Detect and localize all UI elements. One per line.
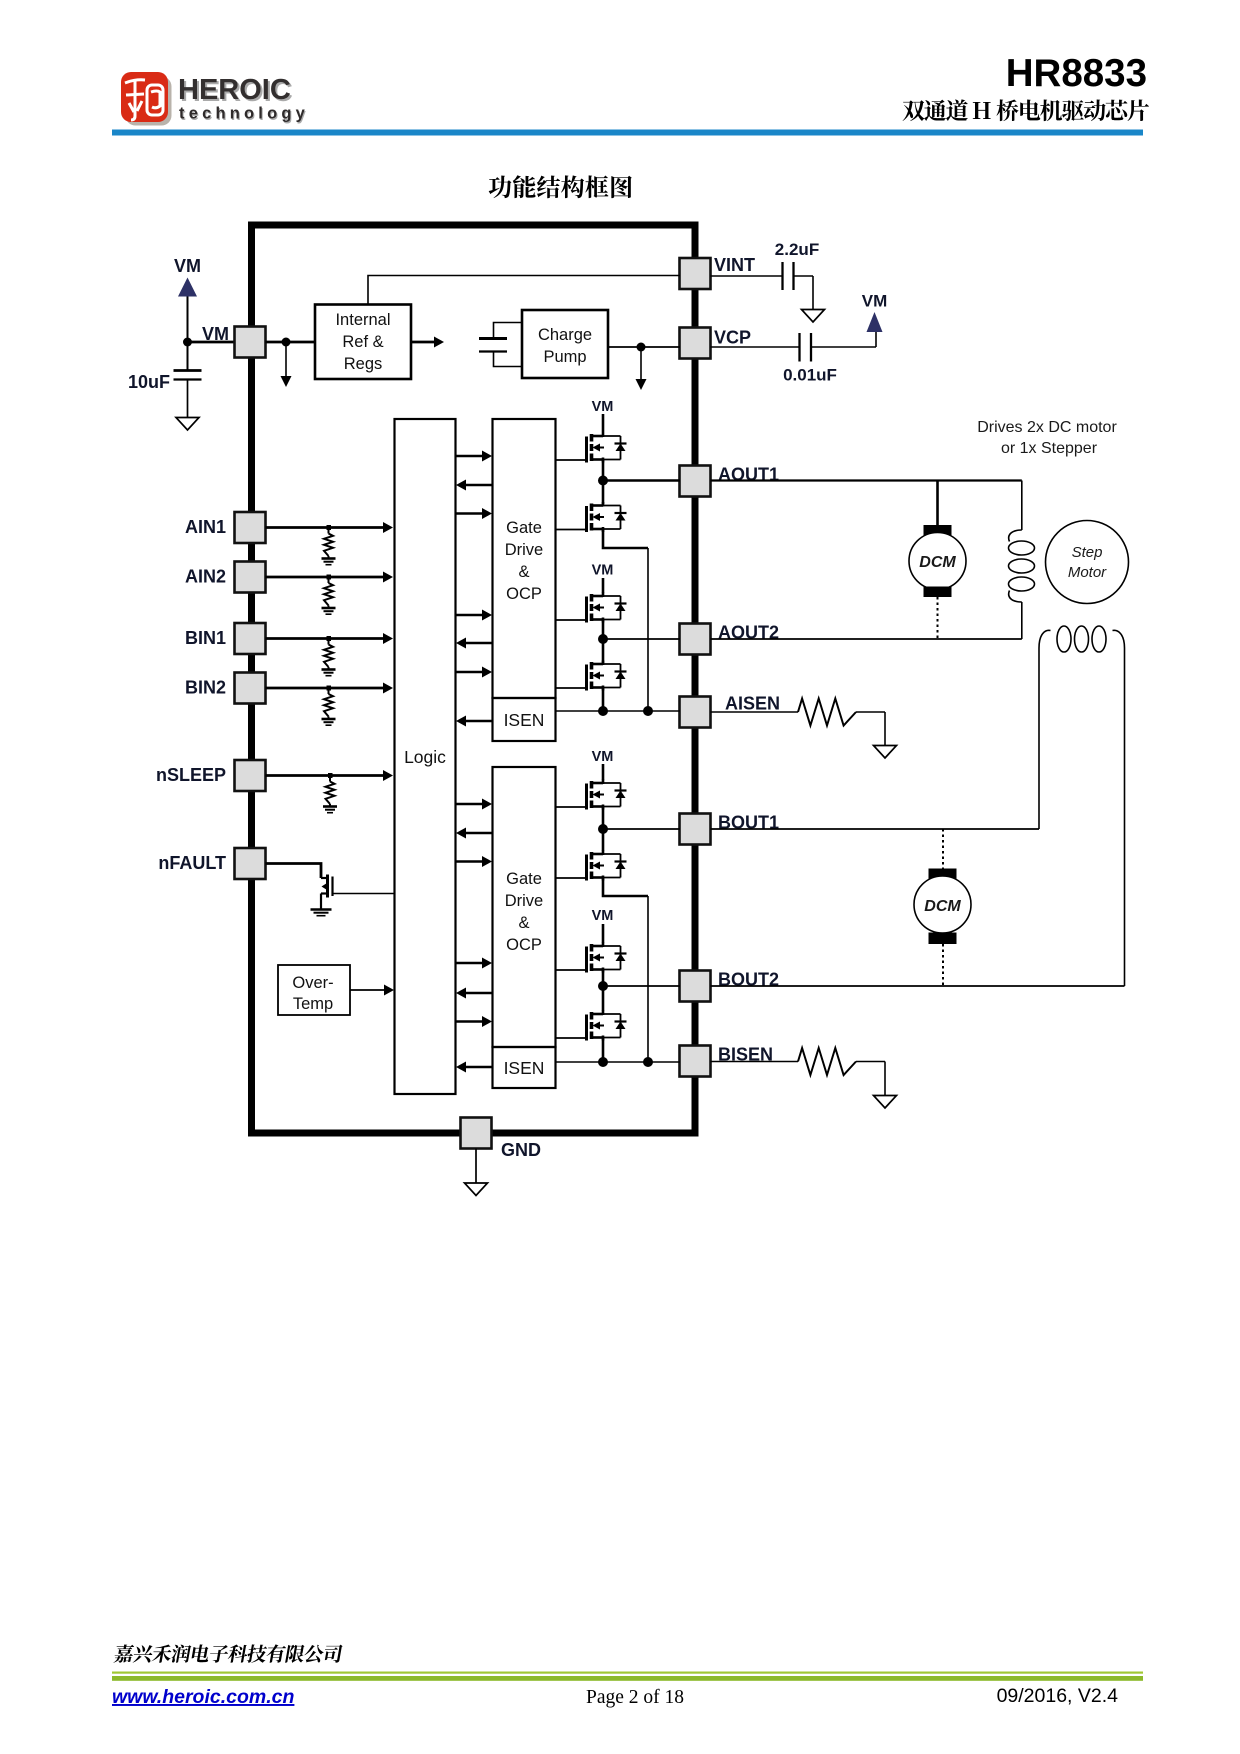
arrow VCP net down [636,349,647,390]
footer green rule [112,1672,1143,1674]
block ISEN (B) [493,1047,556,1088]
wire Q1 gate to Logic [334,893,395,895]
svg-text:Ref &: Ref & [342,333,383,351]
motor Step Motor [1046,521,1129,604]
capacitor C2 2.2uF [783,262,814,310]
arrow Gate Drive to Logic [456,480,493,491]
capacitor (charge pump flying cap) [479,323,522,367]
junction BOUT2 node [598,981,608,991]
transistor M5 high-side B (NMOS with body diode) [587,780,627,810]
svg-text:Gate: Gate [506,519,542,537]
svg-text:Over-: Over- [292,974,333,992]
svg-text:Drive: Drive [505,892,544,910]
HEROIC logo seal [121,72,172,126]
wire AOUT2 external [711,638,1022,640]
svg-text:Charge: Charge [538,326,592,344]
arrow Logic to Gate Drive [456,610,493,621]
wire Charge Pump to VCP pin [608,346,680,348]
arrow Logic to Gate Drive [456,958,493,969]
svg-text:09/2016, V2.4: 09/2016, V2.4 [997,1685,1119,1707]
junction on VM net [282,338,291,347]
svg-text:GND: GND [501,1140,541,1160]
wire VM to pin [188,341,235,344]
resistor R2 (BISEN sense) [798,1048,885,1096]
svg-text:technology: technology [179,105,309,123]
transistor M8 low-side B (NMOS with body diode) [587,1011,627,1041]
svg-text:VM: VM [202,324,229,344]
pin VCP [680,328,711,359]
svg-text:VINT: VINT [714,255,755,275]
junction sense A (M4) [598,706,608,716]
wire BOUT1 external [711,828,1040,830]
motor DCM (channel A) [909,481,966,640]
gate stub M1 [556,459,587,461]
svg-text:0.01uF: 0.01uF [783,366,837,385]
svg-text:BIN1: BIN1 [185,628,226,648]
svg-text:HEROIC: HEROIC [178,74,291,106]
block ISEN (A) [493,698,556,741]
wire VM to M1 drain [602,414,605,433]
arrow Logic to Gate Drive [456,799,493,810]
ground (Q1 source) [311,910,332,916]
wire VCP pin out [711,346,800,348]
svg-text:Step: Step [1072,544,1103,561]
wire ISEN B net [556,1061,681,1063]
wire BOUT1 node to pin [603,828,680,830]
wire M3 source to AOUT2 node [602,620,605,663]
wire/arrow BIN2 to Logic [266,683,394,694]
arrow Logic to Gate Drive [456,451,493,462]
page title 功能结构框图 [489,175,632,198]
svg-text:VM: VM [592,908,614,924]
arrow Gate Drive to Logic [456,638,493,649]
svg-text:VM: VM [592,563,614,579]
junction sense A (M2) [643,706,653,716]
svg-text:&: & [518,914,529,932]
capacitor C1 10uF [174,342,202,418]
svg-text:Temp: Temp [293,995,333,1013]
wire AOUT1 node to pin [603,479,680,482]
transistor M6 low-side B (NMOS with body diode) [587,851,627,881]
svg-text:HR8833: HR8833 [1006,52,1147,95]
arrow VM net down [281,344,292,387]
svg-text:BIN2: BIN2 [185,678,226,698]
ground (GND pin) [465,1183,488,1196]
svg-text:Gate: Gate [506,870,542,888]
svg-text:ISEN: ISEN [504,1058,545,1078]
svg-text:nFAULT: nFAULT [158,853,226,873]
wire M2 source jog to sense net [603,530,648,712]
power flag VM (left) [178,278,197,343]
wire BOUT2 external [711,985,1125,987]
junction AOUT1 node [598,476,608,486]
resistor pulldown on AIN1 [324,525,333,559]
svg-text:&: & [518,563,529,581]
resistor pulldown on nSLEEP [326,773,335,807]
arrow Over-Temp to Logic [350,985,394,996]
pin AISEN [680,697,711,728]
wire ISEN A net [556,710,681,712]
junction VM node [183,338,192,347]
wire VM to M7 drain [602,924,605,943]
pin AIN1 [235,512,266,543]
wire M1 source to AOUT1 node [602,460,605,504]
pin BIN2 [235,673,266,704]
arrow Logic to Gate Drive [456,1016,493,1027]
pin nFAULT [235,848,266,879]
wire AISEN external [711,711,799,713]
svg-text:nSLEEP: nSLEEP [156,765,226,785]
wire/arrow AIN2 to Logic [266,572,394,583]
svg-text:VM: VM [592,749,614,765]
pin BOUT2 [680,971,711,1002]
svg-text:Pump: Pump [543,348,586,366]
svg-text:OCP: OCP [506,936,542,954]
svg-text:Logic: Logic [404,747,446,767]
pin BISEN [680,1046,711,1077]
pin AIN2 [235,562,266,593]
arrow ISEN A to Logic [456,716,493,727]
svg-text:10uF: 10uF [128,372,170,392]
pin AOUT2 [680,624,711,655]
svg-text:or 1x Stepper: or 1x Stepper [1001,440,1098,457]
arrow Logic to Gate Drive [456,856,493,867]
ground (10uF) [176,418,199,431]
svg-text:Page 2 of 18: Page 2 of 18 [586,1687,684,1708]
motor DCM (channel B) [914,829,971,986]
chip body outline [252,225,696,1133]
transistor M7 high-side B (NMOS with body diode) [587,943,627,973]
block Internal Ref & Regs [315,305,411,380]
wire M4 source to sense net [602,688,605,711]
block Logic [395,419,456,1094]
transistor M4 low-side A (NMOS with body diode) [587,661,627,691]
pin nSLEEP [235,760,266,791]
wire VM to M3 drain [602,578,605,593]
footer company name 嘉兴禾润电子科技有限公司 [113,1644,343,1662]
wire VM pin to Internal Ref [266,341,316,344]
wire M7 source to BOUT2 node [602,970,605,1011]
svg-text:DCM: DCM [919,554,956,571]
svg-text:Internal: Internal [335,311,390,329]
gate stub M7 [556,969,587,971]
wire/arrow nSLEEP to Logic [266,770,394,781]
transistor Q1 (nFAULT open drain) [321,875,333,910]
svg-text:VM: VM [174,256,201,276]
header blue rule [112,130,1143,136]
wire BOUT2 node to pin [603,985,680,987]
arrow Logic to Gate Drive [456,667,493,678]
wire/arrow AIN1 to Logic [266,522,394,533]
wire AOUT2 node to pin [603,638,680,640]
ground (2.2uF) [802,310,825,323]
svg-text:Drive: Drive [505,541,544,559]
power flag VM (right) [867,312,883,332]
wire M5 source to BOUT1 node [602,807,605,851]
junction BOUT1 node [598,824,608,834]
arrow ISEN B to Logic [456,1062,493,1073]
block Gate Drive & OCP (A) [493,419,556,698]
arrow Gate Drive to Logic [456,988,493,999]
wire BISEN external [711,1061,799,1063]
block Gate Drive & OCP (B) [493,767,556,1047]
svg-text:www.heroic.com.cn: www.heroic.com.cn [112,1686,294,1708]
gate stub M3 [556,619,587,621]
resistor R1 (AISEN sense) [798,699,885,746]
ground (R2) [874,1096,897,1109]
block Over-Temp [278,965,350,1015]
svg-text:Motor: Motor [1068,564,1107,581]
svg-text:VM: VM [592,399,614,415]
svg-text:VM: VM [862,292,888,311]
wire M8 source to sense net [602,1038,605,1062]
subtitle 双通道H桥电机驱动芯片 [903,99,1150,121]
gate stub M8 [556,1037,587,1039]
junction sense B (M8) [598,1057,608,1067]
wire VM to M5 drain [602,764,605,780]
wire/arrow BIN1 to Logic [266,633,394,644]
svg-text:DCM: DCM [924,898,961,915]
junction sense B (M6) [643,1057,653,1067]
svg-text:Regs: Regs [344,355,383,373]
svg-text:Drives 2x DC motor: Drives 2x DC motor [977,419,1117,436]
wire Internal Ref to VINT pin [368,276,680,305]
inductor stepper winding (vertical) [1009,481,1035,640]
wire M6 source jog to sense net [603,878,648,1062]
arrow Gate Drive to Logic [456,828,493,839]
svg-text:AISEN: AISEN [725,694,780,714]
junction VCP net [637,343,646,352]
transistor M3 high-side A (NMOS with body diode) [587,593,627,623]
svg-text:2.2uF: 2.2uF [775,240,819,259]
gate stub M5 [556,806,587,808]
svg-text:VCP: VCP [714,328,751,348]
wire AOUT1 external [711,479,1022,481]
svg-text:OCP: OCP [506,585,542,603]
wire nFAULT to Q1 [266,864,322,879]
transistor M2 low-side A (NMOS with body diode) [587,502,627,532]
inductor stepper winding (horizontal) [1039,626,1125,986]
arrow Logic to Gate Drive [456,508,493,519]
wire GND to ground [475,1149,477,1184]
gate stub M2 [556,529,587,531]
arrow Internal Ref output [411,337,444,348]
block Charge Pump [522,310,608,378]
pin GND [461,1118,492,1149]
resistor pulldown on BIN2 [324,686,333,720]
svg-text:ISEN: ISEN [504,710,545,730]
pin BOUT1 [680,814,711,845]
wire VINT pin out [711,275,783,277]
junction AOUT2 node [598,634,608,644]
svg-text:AIN1: AIN1 [185,517,226,537]
gate stub M4 [556,687,587,689]
gate stub M6 [556,877,587,879]
ground (R1) [874,746,897,759]
transistor M1 high-side A (NMOS with body diode) [587,433,627,463]
resistor pulldown on AIN2 [324,575,333,609]
pin VM [235,327,266,358]
pin VINT [680,258,711,289]
resistor pulldown on BIN1 [324,636,333,670]
pin BIN1 [235,623,266,654]
pin AOUT1 [680,466,711,497]
capacitor C3 0.01uF [800,332,877,362]
svg-text:AIN2: AIN2 [185,567,226,587]
